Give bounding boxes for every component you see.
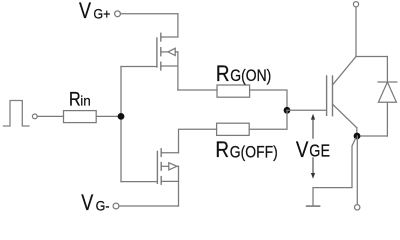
svg-text:G(OFF): G(OFF) xyxy=(230,143,278,162)
wire node B to IGBT gate xyxy=(287,109,326,111)
wire RG(OFF) to Q2 drain xyxy=(179,129,217,153)
svg-text:G(ON): G(ON) xyxy=(230,67,271,86)
svg-text:V: V xyxy=(79,0,92,23)
transistor Q1 (upper MOSFET) xyxy=(157,33,161,70)
node B junction dot xyxy=(284,107,291,114)
VGE arrow down xyxy=(312,158,314,174)
label RG(ON) xyxy=(216,62,271,87)
IGBT U1 xyxy=(327,76,333,116)
wire Q1 drain to VG+ xyxy=(177,14,179,37)
label VG- xyxy=(81,191,109,215)
terminal emitter xyxy=(355,205,360,210)
ground xyxy=(307,205,320,207)
wire VG- xyxy=(119,205,179,207)
wire gate Q1 xyxy=(121,66,157,68)
label VG+ xyxy=(79,0,110,23)
label Rin xyxy=(69,88,91,110)
resistor Rin xyxy=(64,111,97,123)
node A junction dot xyxy=(118,113,125,120)
terminal VG+ xyxy=(115,11,121,17)
wire emitter sense return xyxy=(313,139,356,206)
wire emitter to terminal xyxy=(356,136,358,204)
wire Rin to node A xyxy=(96,115,121,117)
svg-text:in: in xyxy=(80,94,91,109)
transistor Q2 (lower MOSFET) xyxy=(157,149,161,184)
label RG(OFF) xyxy=(215,138,277,163)
wire Q1 source to RG(ON) xyxy=(178,89,217,91)
wire diode to emitter node xyxy=(357,135,387,137)
label VGE xyxy=(296,139,330,163)
wire vertical bus xyxy=(120,67,122,182)
resistor RG(OFF) xyxy=(217,123,250,135)
node E junction dot xyxy=(354,133,361,140)
svg-text:R: R xyxy=(215,138,229,163)
wire collector to diode xyxy=(356,56,387,58)
terminal collector xyxy=(353,2,358,7)
svg-text:R: R xyxy=(69,88,81,110)
wire node B down to RG(OFF) xyxy=(249,110,287,129)
resistor RG(ON) xyxy=(217,85,250,97)
wire RG(ON) to node B xyxy=(250,90,287,110)
svg-text:G-: G- xyxy=(96,198,110,214)
pulse input symbol xyxy=(4,101,30,127)
svg-text:G+: G+ xyxy=(93,6,110,22)
svg-text:R: R xyxy=(216,62,230,87)
diode D1 xyxy=(386,57,388,83)
svg-text:GE: GE xyxy=(309,142,330,161)
svg-text:V: V xyxy=(81,191,94,215)
wire gate Q2 xyxy=(121,181,157,183)
wire input to Rin xyxy=(37,115,63,117)
wire collector xyxy=(355,7,357,56)
svg-text:V: V xyxy=(296,139,309,163)
VGE arrow up xyxy=(312,119,314,138)
terminal VG- xyxy=(113,203,119,209)
input terminal xyxy=(32,114,37,119)
